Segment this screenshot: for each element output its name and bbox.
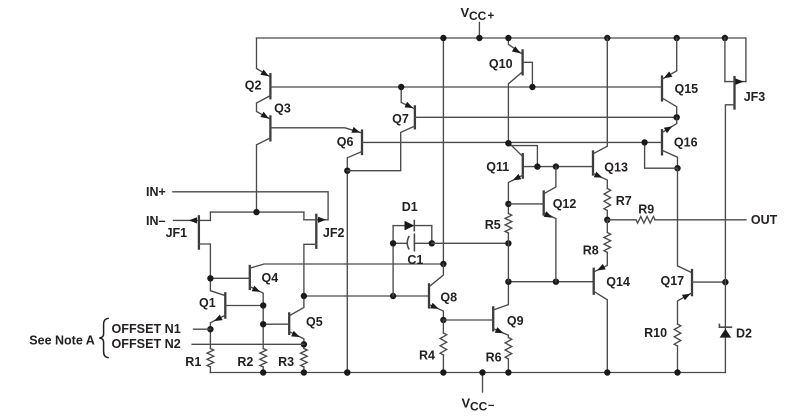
svg-text:R8: R8 <box>583 243 599 257</box>
svg-text:R5: R5 <box>485 218 501 232</box>
svg-text:Q5: Q5 <box>306 315 323 329</box>
svg-text:See Note A: See Note A <box>29 334 95 348</box>
svg-text:Q7: Q7 <box>392 112 409 126</box>
svg-text:R1: R1 <box>185 355 201 369</box>
svg-text:Q11: Q11 <box>486 160 509 174</box>
svg-text:Q13: Q13 <box>604 160 628 174</box>
svg-text:R3: R3 <box>278 355 294 369</box>
svg-text:R6: R6 <box>486 351 502 365</box>
svg-text:JF2: JF2 <box>323 226 345 240</box>
svg-text:R10: R10 <box>644 326 667 340</box>
svg-text:Q1: Q1 <box>199 296 216 310</box>
svg-text:IN+: IN+ <box>146 185 166 199</box>
svg-text:Q3: Q3 <box>274 101 291 115</box>
svg-text:R4: R4 <box>419 349 435 363</box>
svg-text:Q9: Q9 <box>507 314 524 328</box>
svg-text:+: + <box>488 10 495 22</box>
svg-text:JF3: JF3 <box>744 90 766 104</box>
svg-text:R7: R7 <box>616 194 632 208</box>
svg-text:Q12: Q12 <box>553 197 577 211</box>
svg-text:R9: R9 <box>638 202 654 216</box>
svg-text:JF1: JF1 <box>166 226 188 240</box>
svg-text:D2: D2 <box>736 326 752 340</box>
svg-text:Q8: Q8 <box>440 290 457 304</box>
svg-text:Q10: Q10 <box>489 57 513 71</box>
svg-text:OFFSET N2: OFFSET N2 <box>112 337 181 351</box>
svg-text:Q17: Q17 <box>661 274 685 288</box>
svg-text:Q2: Q2 <box>245 78 262 92</box>
svg-text:–: – <box>488 400 495 412</box>
svg-text:Q6: Q6 <box>337 135 354 149</box>
svg-text:Q16: Q16 <box>674 135 698 149</box>
svg-text:D1: D1 <box>402 200 418 214</box>
svg-text:C1: C1 <box>407 253 423 267</box>
svg-text:CC: CC <box>469 9 487 23</box>
svg-text:OFFSET N1: OFFSET N1 <box>112 322 181 336</box>
svg-text:R2: R2 <box>237 355 253 369</box>
svg-text:CC: CC <box>470 399 488 413</box>
svg-text:OUT: OUT <box>751 213 778 227</box>
svg-text:Q4: Q4 <box>262 271 279 285</box>
svg-text:IN–: IN– <box>146 214 166 228</box>
svg-text:Q15: Q15 <box>675 82 699 96</box>
svg-text:Q14: Q14 <box>606 275 630 289</box>
